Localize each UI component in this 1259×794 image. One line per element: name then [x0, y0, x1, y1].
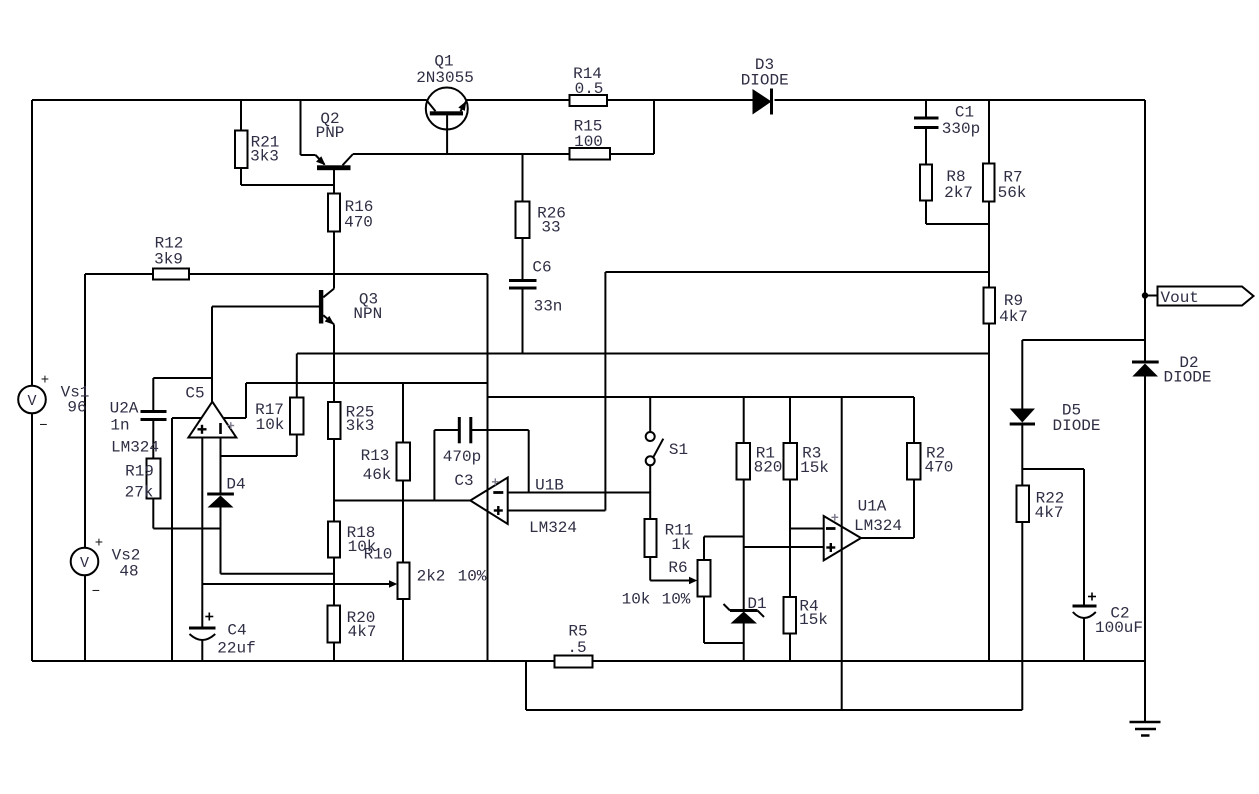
- svg-text:D1: D1: [747, 595, 766, 613]
- svg-text:470p: 470p: [443, 448, 481, 466]
- svg-text:0.5: 0.5: [575, 80, 604, 98]
- svg-text:33: 33: [541, 219, 560, 237]
- svg-text:46k: 46k: [363, 466, 392, 484]
- svg-text:100uF: 100uF: [1095, 619, 1143, 637]
- svg-text:U1A: U1A: [858, 498, 887, 516]
- svg-text:V: V: [27, 393, 36, 410]
- svg-text:2k7: 2k7: [944, 184, 973, 202]
- svg-text:C4: C4: [227, 622, 246, 640]
- svg-text:R10: R10: [364, 546, 393, 564]
- svg-text:R6: R6: [668, 559, 687, 577]
- svg-text:C5: C5: [185, 385, 204, 403]
- svg-text:10k: 10k: [256, 416, 285, 434]
- svg-text:−: −: [39, 418, 47, 434]
- svg-text:22uf: 22uf: [217, 640, 255, 658]
- svg-text:Vout: Vout: [1161, 289, 1199, 307]
- svg-text:3k9: 3k9: [154, 251, 183, 269]
- svg-text:D4: D4: [226, 476, 245, 494]
- svg-text:PNP: PNP: [316, 124, 345, 142]
- svg-text:1k: 1k: [671, 536, 690, 554]
- svg-text:470: 470: [344, 214, 373, 232]
- svg-text:33n: 33n: [534, 298, 563, 316]
- svg-text:U2A: U2A: [110, 400, 139, 418]
- svg-text:+: +: [95, 535, 103, 551]
- svg-text:10k: 10k: [622, 591, 651, 609]
- svg-text:470: 470: [924, 459, 953, 477]
- svg-text:C3: C3: [454, 472, 473, 490]
- svg-text:27k: 27k: [125, 484, 154, 502]
- svg-text:DIODE: DIODE: [1052, 417, 1100, 435]
- svg-text:15k: 15k: [800, 459, 829, 477]
- svg-text:4k7: 4k7: [999, 308, 1028, 326]
- svg-text:4k7: 4k7: [1035, 504, 1064, 522]
- svg-text:LM324: LM324: [529, 519, 577, 537]
- svg-text:U1B: U1B: [535, 477, 564, 495]
- svg-text:48: 48: [119, 563, 138, 581]
- svg-text:.5: .5: [567, 639, 586, 657]
- svg-text:3k3: 3k3: [346, 417, 375, 435]
- svg-text:56k: 56k: [998, 184, 1027, 202]
- svg-text:NPN: NPN: [353, 305, 382, 323]
- svg-text:−: −: [92, 584, 100, 600]
- svg-text:C1: C1: [955, 104, 974, 122]
- svg-text:LM324: LM324: [111, 439, 159, 457]
- svg-text:LM324: LM324: [854, 517, 902, 535]
- svg-text:Q1: Q1: [434, 53, 453, 71]
- svg-text:15k: 15k: [799, 611, 828, 629]
- svg-text:C6: C6: [532, 259, 551, 277]
- svg-text:330p: 330p: [942, 120, 980, 138]
- svg-text:820: 820: [754, 459, 783, 477]
- svg-text:3k3: 3k3: [250, 148, 279, 166]
- svg-text:R13: R13: [361, 447, 390, 465]
- svg-text:2k2: 2k2: [417, 568, 446, 586]
- svg-text:2N3055: 2N3055: [416, 69, 474, 87]
- svg-text:10%: 10%: [662, 591, 691, 609]
- svg-text:96: 96: [67, 399, 86, 417]
- svg-text:10%: 10%: [458, 568, 487, 586]
- svg-text:1n: 1n: [110, 417, 129, 435]
- svg-text:DIODE: DIODE: [1163, 369, 1211, 387]
- svg-text:S1: S1: [669, 441, 688, 459]
- svg-text:4k7: 4k7: [348, 623, 377, 641]
- svg-text:R5: R5: [568, 623, 587, 641]
- svg-text:DIODE: DIODE: [741, 72, 789, 90]
- svg-text:R19: R19: [125, 463, 154, 481]
- svg-text:V: V: [80, 555, 89, 572]
- svg-text:+: +: [41, 372, 49, 388]
- svg-text:100: 100: [574, 133, 603, 151]
